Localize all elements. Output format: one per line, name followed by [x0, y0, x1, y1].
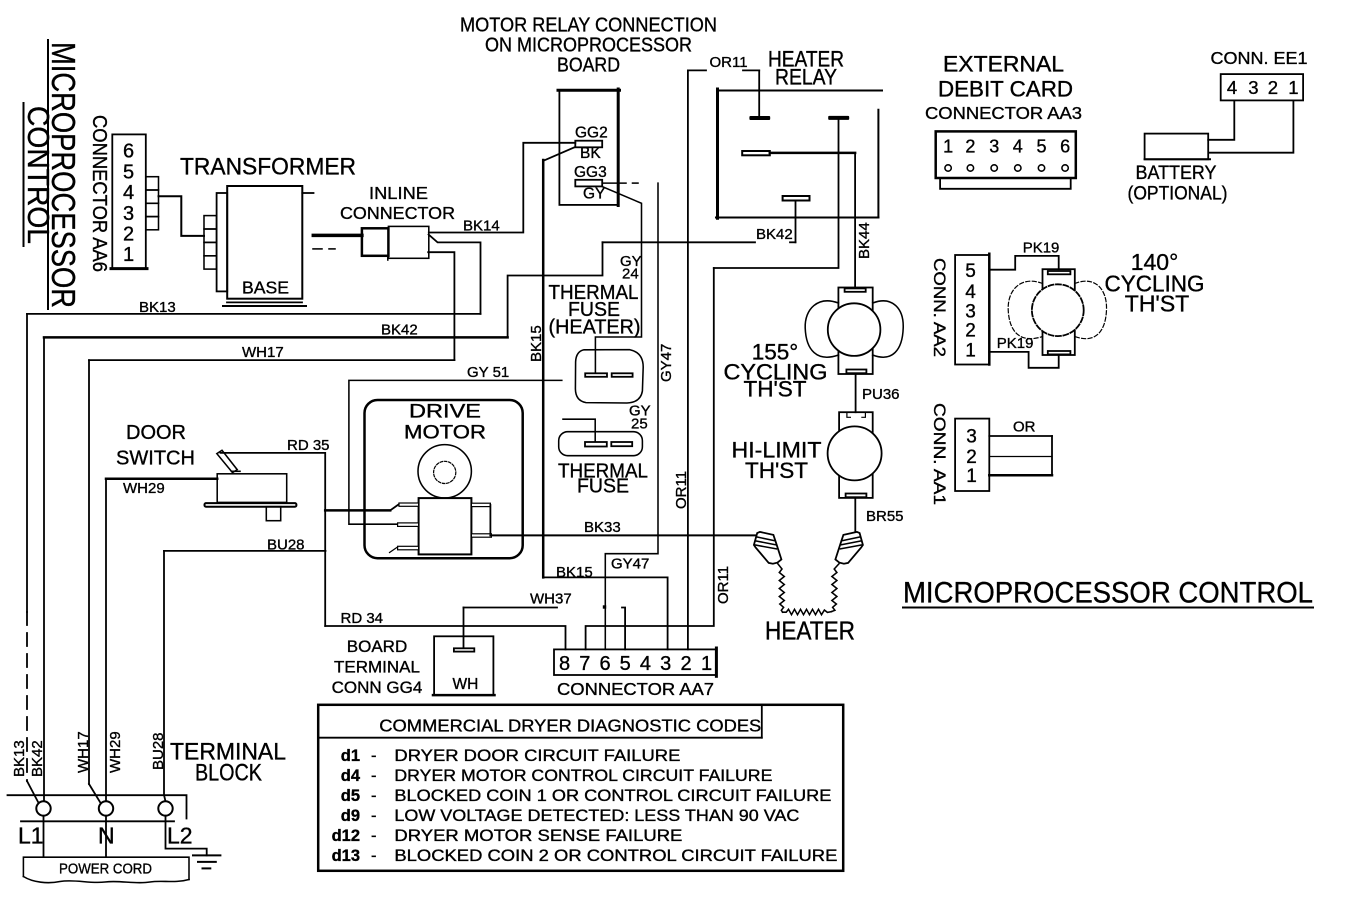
- svg-text:FUSE: FUSE: [577, 475, 629, 498]
- svg-text:-: -: [371, 847, 377, 865]
- diagnostic codes table: [318, 705, 843, 871]
- drive motor body: [365, 400, 523, 558]
- wire AA6 to transformer: [159, 196, 205, 236]
- relay contact bar (top right): [828, 116, 849, 120]
- svg-text:6: 6: [599, 653, 610, 675]
- wire BR55: [854, 497, 856, 531]
- transformer base lines: [227, 301, 302, 303]
- svg-text:2: 2: [965, 137, 975, 157]
- terminal GG2: [575, 141, 602, 148]
- wire WH17: [89, 360, 454, 803]
- svg-text:1: 1: [701, 653, 712, 675]
- svg-text:GY: GY: [583, 186, 605, 203]
- wire GY24 (GG3 to thermal fuse heater): [595, 187, 641, 373]
- 140 cycling thermostat body: [1008, 269, 1106, 355]
- svg-text:OR11: OR11: [715, 566, 732, 604]
- terminal N: [99, 801, 113, 815]
- heater element (bottom zigzag): [783, 609, 832, 614]
- connector AA3 pin holes: [945, 165, 1068, 171]
- svg-text:2: 2: [1268, 77, 1278, 98]
- svg-text:PK19: PK19: [1023, 240, 1060, 257]
- terminal L2: [158, 801, 172, 815]
- wire RD35 (door switch to AA7 pin8 via RD34): [221, 453, 400, 626]
- svg-text:5: 5: [620, 653, 631, 675]
- wire into thermal fuse 2: [563, 419, 595, 442]
- svg-text:(HEATER): (HEATER): [549, 316, 641, 339]
- thermal fuse (heater) label: [549, 281, 641, 339]
- svg-text:POWER CORD: POWER CORD: [59, 861, 152, 878]
- svg-text:BK44: BK44: [856, 222, 873, 259]
- thermal fuse 2 label: [558, 460, 648, 498]
- svg-text:BK13: BK13: [11, 740, 28, 777]
- svg-text:TERMINAL: TERMINAL: [334, 658, 420, 677]
- svg-text:3: 3: [989, 137, 999, 157]
- connector AA3 body: [936, 131, 1076, 178]
- svg-text:3: 3: [966, 427, 977, 448]
- door switch label: [116, 422, 195, 470]
- svg-text:1: 1: [1288, 77, 1298, 98]
- thermal fuse (heater) body: [575, 350, 643, 403]
- motor prong left row1: [399, 503, 419, 506]
- svg-text:GY47: GY47: [658, 344, 675, 382]
- motor prong left row3: [390, 546, 419, 552]
- wire AA2 pin5 to 140 thermostat: [989, 256, 1058, 270]
- svg-text:3: 3: [660, 653, 671, 675]
- svg-text:d5: d5: [341, 787, 360, 805]
- svg-text:1: 1: [965, 341, 976, 362]
- svg-text:WH37: WH37: [530, 591, 572, 608]
- door switch body: [217, 474, 287, 503]
- hi-limit thermostat body: [828, 412, 882, 498]
- door switch base plate: [205, 503, 297, 507]
- wire GG3 stub: [603, 182, 626, 184]
- wire OR11 top horizontal: [688, 69, 706, 71]
- svg-text:1: 1: [943, 137, 953, 157]
- svg-text:d12: d12: [332, 827, 360, 845]
- svg-text:1: 1: [966, 466, 977, 487]
- svg-text:d9: d9: [341, 807, 360, 825]
- svg-text:-: -: [371, 807, 377, 825]
- svg-text:BOARD: BOARD: [557, 54, 620, 77]
- svg-text:WH17: WH17: [75, 731, 92, 773]
- conn AA2 body: [955, 254, 989, 365]
- battery body: [1145, 134, 1210, 160]
- wire PU36: [855, 374, 857, 412]
- conn AA1 body: [955, 419, 989, 491]
- svg-text:TH'ST: TH'ST: [745, 458, 808, 483]
- svg-text:BK15: BK15: [556, 564, 593, 581]
- svg-text:BR55: BR55: [866, 508, 904, 525]
- svg-text:-: -: [371, 827, 377, 845]
- drive motor label: [404, 402, 486, 444]
- svg-text:8: 8: [559, 653, 570, 675]
- wire L2 to ground: [166, 816, 207, 856]
- ground: [193, 855, 220, 868]
- svg-text:4: 4: [640, 653, 651, 675]
- svg-text:CONNECTOR AA6: CONNECTOR AA6: [88, 115, 110, 272]
- wire bottom-middle bar to BK42: [795, 201, 797, 243]
- motor prong left row2: [398, 523, 419, 527]
- diagnostic code d13: [332, 847, 838, 865]
- transformer body: [227, 186, 302, 299]
- drive motor pulley: [418, 445, 471, 498]
- door switch lever: [217, 450, 240, 472]
- svg-text:24: 24: [622, 266, 639, 283]
- connector AA7 pin numbers: [559, 653, 712, 675]
- wire inline connector to BK13: [429, 235, 481, 314]
- svg-text:CONTROL: CONTROL: [21, 106, 56, 244]
- svg-text:(OPTIONAL): (OPTIONAL): [1128, 183, 1228, 205]
- svg-text:DOOR: DOOR: [126, 422, 186, 444]
- relay coil bar (middle left): [742, 151, 770, 155]
- conn EE1 pin numbers: [1227, 77, 1299, 98]
- wire BK15 horizontal to AA7 pin3: [543, 577, 667, 649]
- wire BU28: [164, 551, 326, 801]
- 140 cycling thermostat label: [1105, 249, 1205, 317]
- board terminal GG4 label: [332, 637, 423, 697]
- svg-text:7: 7: [579, 653, 590, 675]
- wire BK42 right horizontal: [603, 241, 756, 243]
- diagnostic code d1: [341, 747, 681, 765]
- hi-limit thermostat label: [732, 438, 822, 484]
- motor relay board title: [460, 14, 717, 77]
- svg-text:BK42: BK42: [29, 740, 46, 777]
- svg-text:EXTERNAL: EXTERNAL: [943, 52, 1064, 77]
- svg-text:6: 6: [123, 141, 134, 163]
- svg-text:4: 4: [1227, 77, 1237, 98]
- svg-text:d4: d4: [341, 767, 361, 785]
- svg-text:MICROPROCESSOR CONTROL: MICROPROCESSOR CONTROL: [903, 577, 1313, 610]
- svg-text:DEBIT CARD: DEBIT CARD: [938, 77, 1073, 102]
- relay contact bar (top left): [749, 116, 770, 120]
- wire N to power cord: [105, 816, 107, 857]
- svg-text:CONNECTOR: CONNECTOR: [340, 203, 455, 223]
- svg-text:BASE: BASE: [242, 278, 289, 298]
- terminal block label: [170, 739, 286, 787]
- wire WH37 (to AA7 pin5 and board terminal): [464, 605, 626, 649]
- svg-text:4: 4: [965, 282, 976, 303]
- wire WH29 (thick): [106, 479, 217, 802]
- svg-text:CONN. AA2: CONN. AA2: [930, 258, 949, 357]
- svg-text:DRYER DOOR CIRCUIT FAILURE: DRYER DOOR CIRCUIT FAILURE: [394, 747, 680, 765]
- svg-text:6: 6: [1060, 137, 1070, 157]
- svg-text:HEATER: HEATER: [765, 618, 855, 646]
- heater relay box: [716, 89, 882, 218]
- svg-text:PU36: PU36: [862, 386, 900, 403]
- svg-text:BATTERY: BATTERY: [1136, 162, 1217, 184]
- motor prong right row1: [471, 503, 490, 535]
- svg-text:DRYER MOTOR SENSE FAILURE: DRYER MOTOR SENSE FAILURE: [394, 827, 682, 845]
- motor relay board box: [558, 89, 620, 206]
- svg-text:SWITCH: SWITCH: [116, 448, 195, 470]
- svg-text:INLINE: INLINE: [369, 183, 428, 203]
- svg-text:BLOCK: BLOCK: [195, 760, 262, 787]
- svg-text:CONN. EE1: CONN. EE1: [1211, 48, 1308, 68]
- drive motor switch block: [419, 498, 472, 554]
- svg-text:5: 5: [1036, 137, 1046, 157]
- conn EE1 body: [1221, 74, 1303, 100]
- board terminal GG4 box (WH): [433, 636, 495, 695]
- wire relay coil to BK44 (thick): [770, 152, 855, 155]
- svg-text:L1: L1: [18, 823, 44, 849]
- svg-text:GG3: GG3: [574, 164, 607, 181]
- heater element right lead (zigzag): [831, 564, 839, 612]
- svg-text:RELAY: RELAY: [775, 65, 837, 90]
- wire L1 to power cord: [43, 816, 45, 857]
- svg-text:BK42: BK42: [756, 226, 793, 243]
- external debit card label: [938, 52, 1073, 102]
- svg-text:2: 2: [965, 321, 976, 342]
- svg-text:2: 2: [123, 224, 134, 246]
- svg-text:BK: BK: [580, 145, 601, 162]
- heater plug right: [835, 532, 863, 564]
- door switch tab: [266, 507, 280, 521]
- svg-text:BLOCKED COIN 1 OR CONTROL CIRC: BLOCKED COIN 1 OR CONTROL CIRCUIT FAILUR…: [394, 787, 831, 805]
- transformer top stub: [302, 192, 313, 194]
- connector AA3 flange: [940, 178, 1071, 189]
- wire transformer primary (thick): [313, 234, 362, 238]
- wire BK33 (motor to heater plug): [490, 534, 757, 536]
- svg-text:25: 25: [631, 416, 648, 433]
- svg-text:CONNECTOR AA3: CONNECTOR AA3: [925, 103, 1082, 123]
- svg-text:d13: d13: [332, 847, 360, 865]
- svg-text:1: 1: [123, 244, 134, 266]
- svg-text:TH'ST: TH'ST: [743, 377, 806, 402]
- svg-text:3: 3: [1248, 77, 1258, 98]
- power cord box: [23, 857, 189, 883]
- svg-text:WH: WH: [453, 676, 479, 693]
- svg-text:5: 5: [965, 261, 976, 282]
- svg-text:CONNECTOR AA7: CONNECTOR AA7: [557, 679, 714, 699]
- wire EE1 pin1 to battery: [1209, 100, 1293, 152]
- drive motor pulley hub: [434, 461, 456, 483]
- svg-text:RD 34: RD 34: [341, 610, 384, 627]
- connector AA6 body: [111, 134, 147, 269]
- svg-text:WH29: WH29: [123, 480, 165, 497]
- diagnostic code d4: [341, 767, 773, 785]
- wire OR11 second drop (to AA7 pin7): [586, 268, 714, 649]
- svg-text:5: 5: [123, 161, 134, 183]
- wire BK42 jog: [508, 242, 603, 337]
- svg-text:4: 4: [123, 182, 134, 204]
- wire BK14 (inline connector to GG2): [429, 143, 576, 233]
- wire heater relay top-right bar down: [714, 120, 839, 268]
- diagnostic code d9: [341, 807, 800, 825]
- wire GG2 to BK15 (thick vertical): [543, 147, 575, 161]
- dashes below primary: [313, 248, 322, 250]
- transformer pin blocks: [204, 216, 217, 270]
- svg-text:DRYER MOTOR CONTROL CIRCUIT FA: DRYER MOTOR CONTROL CIRCUIT FAILURE: [394, 767, 772, 785]
- wire BK13: [27, 314, 481, 803]
- svg-text:3: 3: [123, 203, 134, 225]
- svg-text:COMMERCIAL DRYER DIAGNOSTIC CO: COMMERCIAL DRYER DIAGNOSTIC CODES: [379, 716, 761, 736]
- transformer core plate: [217, 193, 228, 291]
- svg-text:GY 51: GY 51: [467, 364, 509, 381]
- svg-text:4: 4: [1013, 137, 1023, 157]
- svg-text:BU28: BU28: [150, 732, 167, 770]
- svg-text:RD 35: RD 35: [287, 437, 330, 454]
- relay contact bar (bottom middle): [783, 196, 810, 201]
- wire BK42 long (thick): [44, 337, 508, 801]
- svg-text:GG2: GG2: [575, 125, 608, 142]
- heater relay label: [768, 47, 844, 90]
- svg-text:LOW VOLTAGE DETECTED: LESS THA: LOW VOLTAGE DETECTED: LESS THAN 90 VAC: [394, 807, 799, 825]
- wire AA1 cable: [989, 436, 1052, 475]
- svg-text:-: -: [371, 767, 377, 785]
- svg-text:BK42: BK42: [381, 322, 418, 339]
- wire RD34 to AA7 pin8: [325, 626, 565, 649]
- svg-text:BOARD: BOARD: [347, 637, 407, 656]
- 155 cycling thermostat body: [805, 288, 903, 375]
- svg-text:2: 2: [966, 447, 977, 468]
- svg-text:WH29: WH29: [107, 731, 124, 773]
- svg-text:OR: OR: [1013, 419, 1036, 436]
- connector AA6 pin blocks: [146, 177, 159, 230]
- svg-text:MOTOR: MOTOR: [404, 423, 486, 444]
- motor prong right row2: [471, 534, 491, 537]
- svg-text:TRANSFORMER: TRANSFORMER: [180, 154, 356, 181]
- svg-text:L2: L2: [167, 823, 193, 849]
- terminal L1: [36, 801, 50, 815]
- svg-text:PK19: PK19: [997, 335, 1034, 352]
- thermal fuse 2 terminal right: [611, 442, 632, 446]
- svg-text:3: 3: [965, 301, 976, 322]
- diagnostic code d5: [341, 787, 832, 805]
- svg-text:OR11: OR11: [710, 54, 748, 71]
- svg-text:2: 2: [680, 653, 691, 675]
- svg-text:CONN GG4: CONN GG4: [332, 678, 423, 697]
- title MICROPROCESSOR CONTROL (vertical, left): [21, 40, 82, 309]
- svg-text:BLOCKED COIN 2 OR CONTROL CIRC: BLOCKED COIN 2 OR CONTROL CIRCUIT FAILUR…: [394, 847, 837, 865]
- wire EE1 pin4 to battery: [1208, 100, 1234, 139]
- connector AA3 pin numbers: [943, 137, 1070, 157]
- connector AA7 box: [554, 648, 717, 676]
- wire OR11 main vertical (to AA7 pin2): [687, 70, 689, 649]
- wire GY47 (to AA7 pin6): [605, 183, 658, 649]
- heater plug left: [754, 532, 782, 564]
- svg-text:WH17: WH17: [242, 344, 284, 361]
- svg-text:GY47: GY47: [611, 556, 649, 573]
- battery label: [1128, 162, 1228, 205]
- thermal fuse (heater) terminal right: [612, 373, 633, 377]
- svg-text:CONN. AA1: CONN. AA1: [930, 403, 949, 505]
- wire BK44 vertical: [854, 153, 856, 288]
- svg-text:BK33: BK33: [584, 519, 621, 536]
- thermal fuse (heater) terminal left: [585, 373, 607, 377]
- svg-text:OR11: OR11: [673, 471, 690, 509]
- thermal fuse 2 body: [559, 432, 643, 456]
- wire GY51: [349, 380, 562, 524]
- inline connector body: [362, 228, 389, 256]
- terminal block rails: [8, 795, 187, 821]
- svg-text:-: -: [371, 787, 377, 805]
- thermal fuse 2 terminal left: [585, 442, 607, 447]
- heater element left lead (zigzag): [778, 564, 784, 612]
- title MICROPROCESSOR CONTROL (bottom right): [903, 577, 1313, 610]
- diagnostic code d12: [332, 827, 683, 845]
- wire AA2 pin1 to 140 thermostat: [989, 352, 1058, 368]
- svg-text:d1: d1: [341, 747, 360, 765]
- wire inline connector to WH17: [428, 252, 454, 360]
- svg-text:-: -: [371, 747, 377, 765]
- svg-text:TH'ST: TH'ST: [1125, 291, 1189, 317]
- 155 cycling thermostat label: [724, 340, 828, 402]
- svg-text:DRIVE: DRIVE: [409, 402, 481, 423]
- terminal GG3: [575, 180, 602, 187]
